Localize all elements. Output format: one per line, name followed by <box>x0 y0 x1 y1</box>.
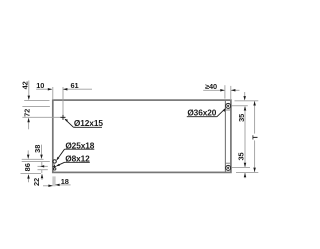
86 up-arrow tail <box>28 175 30 182</box>
arrow 72 up at line C <box>27 118 30 122</box>
dimension lines (light) <box>21 81 259 187</box>
top plate bottom line <box>225 109 231 111</box>
tick T3 bottom hole level <box>232 166 250 168</box>
rail left edge line <box>224 101 226 173</box>
ge40 dim line right part <box>231 89 240 91</box>
small lower hole circle <box>54 168 56 170</box>
arrow 35top up at T2 <box>244 106 247 110</box>
dim line 10 <box>36 88 52 90</box>
leader Ø12x15 <box>65 119 102 127</box>
tick E bottom-left <box>21 173 42 175</box>
arrow T down at T4 <box>253 168 256 172</box>
arrow 35top down at T1 <box>243 96 246 100</box>
hole Ø12 cross <box>61 115 66 120</box>
dim line 18 left part <box>43 185 52 187</box>
T dim line <box>254 101 256 134</box>
svg-text:38: 38 <box>33 145 42 153</box>
35 col line <box>244 107 246 167</box>
hole Ø8 cross <box>53 165 57 169</box>
svg-text:22: 22 <box>32 178 41 186</box>
ext vert 18 left <box>52 176 54 186</box>
arrow 86 up at tick E <box>27 174 30 178</box>
tick B left <box>22 105 50 107</box>
arrow ge40 right <box>220 89 224 92</box>
arrow 38 down at line D <box>40 155 43 159</box>
arrow 61 left <box>63 88 67 91</box>
tick T4 bottom edge level right <box>236 171 258 173</box>
dim line 18 right part / underline <box>55 184 70 186</box>
tick T1 right top <box>235 100 259 102</box>
svg-text:Ø36x20: Ø36x20 <box>187 108 216 118</box>
72 up-arrow tail <box>28 119 30 130</box>
arrow 42 down at tick A <box>28 96 31 100</box>
panel outline <box>53 100 231 172</box>
ge40 dim line left part <box>203 89 225 91</box>
dim line 61 <box>63 88 92 90</box>
tick F above line D <box>22 158 44 160</box>
38 dim col line <box>41 145 43 156</box>
tick A top-edge level left <box>24 99 49 101</box>
ext vert panel left top <box>52 87 54 100</box>
arrow blob left at Ø8 line <box>40 165 44 167</box>
svg-text:Ø8x12: Ø8x12 <box>65 153 90 163</box>
svg-text:42: 42 <box>21 81 30 89</box>
bottom plate top line <box>225 162 231 164</box>
35 bottom up-arrow tail below T4 <box>244 173 246 178</box>
arrow 35bot down at T3 <box>244 163 247 167</box>
svg-text:10: 10 <box>36 81 44 90</box>
ge40 ext 2 <box>230 86 232 100</box>
svg-text:35: 35 <box>237 114 246 122</box>
svg-text:86: 86 <box>23 163 32 171</box>
ext vert 18 right <box>54 176 56 186</box>
tick T2 top hole level <box>232 105 248 107</box>
svg-text:Ø25x18: Ø25x18 <box>65 140 94 150</box>
leader Ø25x18 <box>57 149 94 159</box>
svg-text:61: 61 <box>70 81 78 90</box>
ext vert 61 to cross <box>62 87 64 115</box>
arrow 22 up at tick E <box>41 174 44 178</box>
arrow 18 right at panel edge <box>48 185 52 188</box>
86 dim col upper tail <box>27 150 29 155</box>
35 top down-arrow tail above T1 <box>244 92 246 97</box>
hole bottom right Ø36 <box>226 165 231 170</box>
short line lower hole level <box>38 169 48 171</box>
arrow 35bot up at T4 <box>244 173 247 177</box>
svg-text:T: T <box>250 135 259 140</box>
svg-text:35: 35 <box>236 152 245 160</box>
svg-text:≥40: ≥40 <box>205 82 217 91</box>
arrow 18 left at hole ext <box>55 184 59 187</box>
dim line 42 vert <box>28 81 30 97</box>
leader Ø36x20 <box>187 109 225 117</box>
arrow T up at T1 <box>253 101 256 105</box>
arrows (black) <box>27 88 256 187</box>
svg-text:Ø12x15: Ø12x15 <box>74 118 103 128</box>
arrow 10 right <box>48 88 52 91</box>
hole Ø25 ring <box>53 160 56 163</box>
22 col stub lower <box>41 170 43 173</box>
22 col stub upper <box>41 162 43 166</box>
hole top right Ø36 <box>226 103 231 108</box>
svg-text:72: 72 <box>22 109 31 117</box>
extension line C to Ø12 hole <box>22 116 61 118</box>
svg-text:18: 18 <box>61 177 69 186</box>
arrow 86 down at line D <box>27 155 30 159</box>
arrow ge40 left <box>231 89 235 92</box>
extension line D to Ø25 hole <box>22 160 50 162</box>
leader Ø8x12 <box>57 162 90 166</box>
22 up-arrow tail <box>41 175 43 181</box>
short line Ø8 level <box>38 165 48 167</box>
ge40 ext 1 <box>224 85 226 98</box>
